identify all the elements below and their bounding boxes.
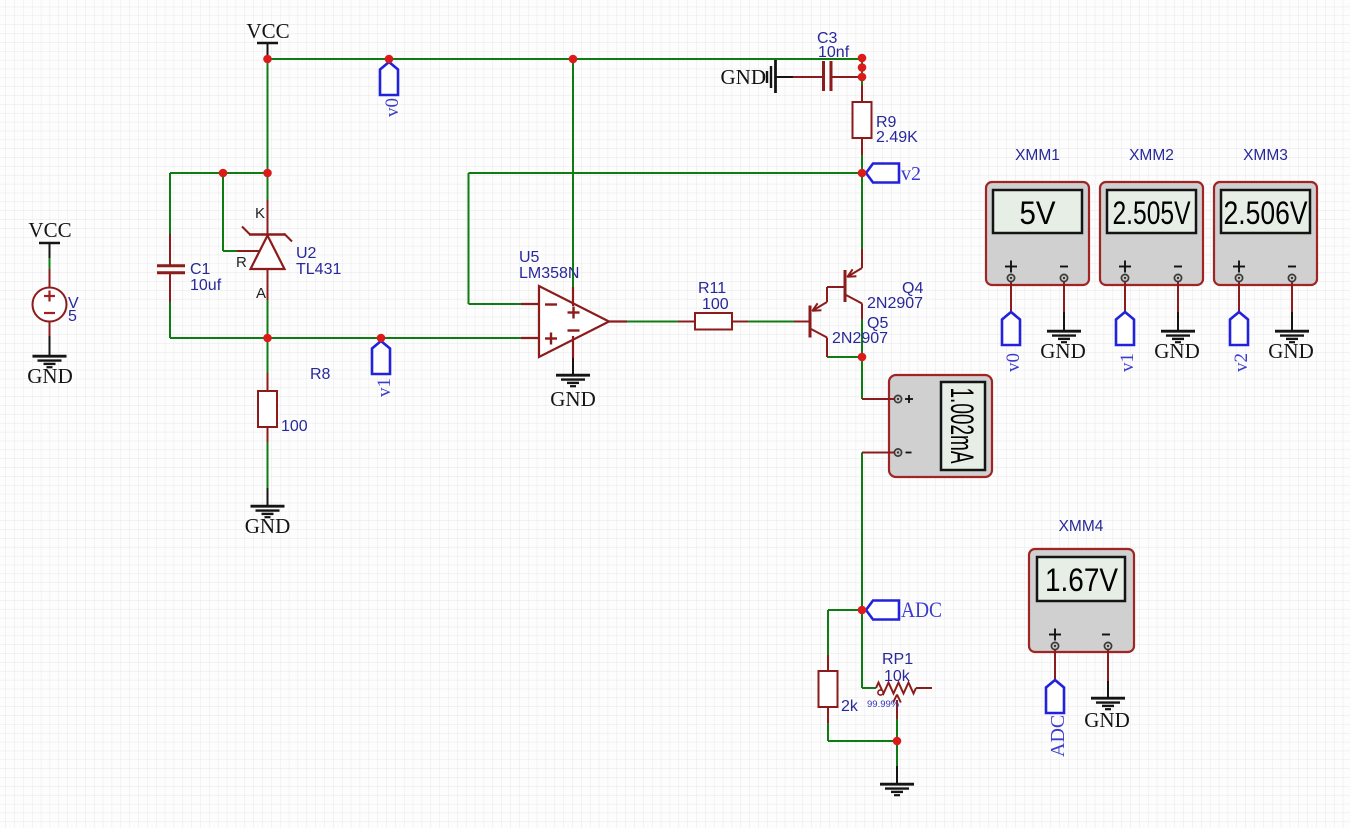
XMM1 + terminal [1007,274,1014,281]
wire R8 to ground (black) [267,488,269,505]
svg-text:1.67V: 1.67V [1045,562,1119,598]
resistor R8 100 [258,391,277,427]
wire ADC node to 2k branch [828,609,862,611]
wire Q4 collector down [861,319,863,357]
junction bottom node [893,737,902,746]
wire op-amp output [627,321,678,323]
power symbol VCC (top) [257,43,278,59]
wire XMM4 - lead [1107,650,1109,681]
multimeter XMM1 display 5V [993,190,1082,233]
svg-text:2.49K: 2.49K [876,129,918,146]
wire XMM3 - to ground (black) [1291,312,1293,330]
wire bottom node to ground [896,741,898,766]
resistor R11 lead right [732,321,748,323]
wire 2k top branch [827,610,829,655]
XMM4 + terminal [1051,642,1058,649]
wire net v2 horizontal [469,172,863,174]
svg-text:GND: GND [27,364,73,388]
svg-text:2N2907: 2N2907 [867,295,923,312]
wire node K-R top link [170,172,268,174]
resistor R9 2.49K [853,102,872,138]
wire to ammeter + [861,357,863,399]
junction v2 node [858,169,867,178]
svg-text:GND: GND [1084,708,1130,732]
wire K-pin [267,173,269,200]
wire to op-amp inverting input [469,303,522,305]
svg-text:10uf: 10uf [190,277,222,294]
svg-text:ADC: ADC [901,597,942,622]
ammeter display 1.002mA [941,382,985,470]
ammeter - terminal mark [906,452,912,454]
ammeter + terminal [894,395,901,402]
XMM3 - mark [1288,266,1296,268]
junction C3 node bottom [858,73,867,82]
XMM1 + mark [1005,261,1017,273]
svg-text:10k: 10k [884,668,911,685]
junction TL431 K node [263,169,272,178]
resistor R8 lead bottom [267,427,269,442]
wire net VCC top rail [268,58,863,60]
svg-text:2N2907: 2N2907 [832,330,888,347]
svg-text:v1: v1 [1117,353,1138,372]
net flag v2 [866,164,899,183]
svg-text:VCC: VCC [28,218,71,242]
XMM4 + mark [1049,629,1061,641]
junction C3 node top [858,54,867,63]
wire XMM1 + to probe [1010,282,1012,312]
svg-text:A: A [256,285,266,302]
junction VCC rail left [263,55,272,64]
resistor R8 lead top [267,373,269,391]
svg-text:GND: GND [550,387,596,411]
wire VCC down to TL431 node [267,59,269,173]
wire R-pin vertical [222,173,224,251]
svg-text:GND: GND [721,65,767,89]
wire bottom node to ground (black) [896,766,898,783]
ground (XMM4) [1091,698,1125,709]
svg-text:R11: R11 [698,280,726,297]
wire XMM4 + to probe [1054,650,1056,680]
XMM2 - terminal [1174,274,1181,281]
ground (below R8) [251,506,285,517]
ammeter + terminal mark [905,395,913,403]
svg-text:2k: 2k [841,698,859,715]
wire RP1 left lead link [862,687,876,689]
XMM2 + terminal [1121,274,1128,281]
multimeter XMM2 display 2.505V [1107,190,1196,233]
multimeter XMM4 display 1.67V [1037,557,1125,601]
svg-text:5V: 5V [1020,195,1057,231]
ground (C3, rotated) [764,60,793,93]
ground (V5 source) [33,356,67,367]
XMM4 - mark [1102,634,1110,636]
transistor Q5 2N2907 [794,302,827,357]
ground (op-amp) [556,375,590,386]
junction ADC node [858,606,867,615]
wire v1 net to R8 [267,338,269,373]
probe flag v1 (XMM2) [1116,312,1134,345]
svg-text:100: 100 [702,296,729,313]
net flag v0 [380,62,398,95]
XMM4 - terminal [1104,642,1111,649]
ground (XMM1) [1047,331,1081,342]
svg-text:v0: v0 [382,98,403,117]
svg-text:U2: U2 [296,245,317,262]
wire Q5 collector link [827,356,862,358]
net flag v1 [372,341,390,374]
multimeter XMM3 body [1214,182,1317,285]
svg-text:v0: v0 [1003,353,1024,372]
svg-text:VCC: VCC [246,19,289,43]
wire net v1 horizontal [170,337,521,339]
resistor R11 lead left [678,321,695,323]
wire wiper to bottom node [896,719,898,741]
wire to R9 top [861,81,863,85]
wire A-pin to v1 net [267,300,269,338]
wire v2 node to Q4 emitter [861,173,863,249]
wire XMM2 - to ground (black) [1177,312,1179,330]
svg-text:v2: v2 [901,163,921,185]
probe flag v0 (XMM1) [1002,312,1020,345]
wire XMM1 - to ground (black) [1063,312,1065,330]
ammeter multimeter body [889,375,992,477]
wire C1 top branch [169,173,171,234]
wire XMM3 + to probe [1238,282,1240,312]
op-amp U5 LM358N [521,286,627,358]
shunt regulator U2 TL431 [237,200,292,300]
wire R9 bottom to v2 node [861,155,863,173]
svg-text:GND: GND [245,514,291,538]
svg-text:v1: v1 [374,378,395,397]
wire R-pin horizontal [223,250,237,252]
svg-text:99.99%: 99.99% [867,699,900,710]
wire ammeter - to ADC node [861,453,863,611]
svg-text:GND: GND [1154,339,1200,363]
svg-text:ADC: ADC [1047,715,1069,757]
wire 2k bottom branch [827,723,829,741]
svg-text:XMM2: XMM2 [1129,147,1174,164]
svg-text:RP1: RP1 [882,651,913,668]
resistor R11 100 [695,313,732,330]
wire op-amp V- to ground (black) [572,358,574,374]
ground (XMM3) [1275,331,1309,342]
potentiometer RP1 10k [876,683,932,720]
svg-text:XMM3: XMM3 [1243,147,1288,164]
voltage source V1 5V [33,269,67,336]
wire R8 to ground [267,442,269,488]
ground (XMM2) [1161,331,1195,342]
wire XMM2 - lead [1177,282,1179,312]
multimeter XMM1 body [986,182,1089,285]
svg-text:5: 5 [68,308,77,325]
svg-text:R: R [236,254,247,271]
junction op-amp supply tap [569,55,578,64]
junction v1 probe [377,334,386,343]
XMM2 - mark [1174,266,1182,268]
wire R11 to Q5 base [748,321,794,323]
junction TL431 A node [263,334,272,343]
wire XMM1 - lead [1063,282,1065,312]
XMM1 - mark [1060,266,1068,268]
wire XMM4 - to ground (black) [1107,681,1109,697]
wire VCC to op-amp V+ [572,59,574,287]
resistor R9 lead bottom [861,138,863,155]
wire C1 bottom branch [169,302,171,338]
net flag ADC [866,601,899,620]
svg-text:10nf: 10nf [818,44,850,61]
XMM3 - terminal [1288,274,1295,281]
wire v2 feedback vertical [468,173,470,304]
wire V5 to ground (black) [49,336,51,355]
multimeter XMM4 body [1029,549,1134,652]
resistor 2k lead top [827,655,829,671]
svg-text:K: K [255,205,265,222]
wire XMM2 + to probe [1124,282,1126,312]
svg-text:2.506V: 2.506V [1224,195,1309,231]
wire to ammeter + terminal [862,398,895,400]
resistor 2k [819,671,838,707]
svg-text:R8: R8 [310,366,331,383]
wire XMM3 - lead [1291,282,1293,312]
junction v0 probe [385,55,394,64]
wire V5 VCC stub [49,258,51,269]
probe flag ADC (XMM4) [1046,680,1064,713]
ground (bottom) [880,784,914,795]
XMM1 - terminal [1060,274,1067,281]
svg-text:GND: GND [1040,339,1086,363]
wire C3 node vertical [861,58,863,81]
junction R-pin tap [219,169,228,178]
XMM3 + mark [1233,261,1245,273]
svg-text:XMM4: XMM4 [1059,518,1104,535]
svg-text:XMM1: XMM1 [1015,147,1060,164]
svg-text:U5: U5 [519,249,540,266]
multimeter XMM2 body [1100,182,1203,285]
capacitor C3 10nf [793,61,862,91]
junction C3 node middle [858,63,867,72]
probe flag v2 (XMM3) [1230,312,1248,345]
power symbol VCC (source V5) [39,243,60,258]
wire bottom node horizontal [828,740,897,742]
ammeter - terminal [894,449,901,456]
capacitor C1 10uf [157,234,185,302]
svg-text:2.505V: 2.505V [1113,195,1192,231]
svg-text:LM358N: LM358N [519,265,579,282]
junction Q4/Q5 collector node [858,353,867,362]
op-amp input/power polarity marks [545,305,580,345]
svg-text:TL431: TL431 [296,261,341,278]
svg-text:100: 100 [281,418,308,435]
multimeter XMM3 display 2.506V [1221,190,1310,233]
resistor R9 lead top [861,85,863,102]
svg-text:v2: v2 [1231,353,1252,372]
transistor Q4 2N2907 [827,249,862,319]
svg-text:C1: C1 [190,261,211,278]
XMM2 + mark [1119,261,1131,273]
wire ADC to RP1 left [861,610,863,688]
svg-text:GND: GND [1268,339,1314,363]
XMM3 + terminal [1235,274,1242,281]
svg-text:1.002mA: 1.002mA [944,388,980,464]
wire to ammeter - terminal [862,452,895,454]
resistor 2k lead bottom [827,707,829,723]
